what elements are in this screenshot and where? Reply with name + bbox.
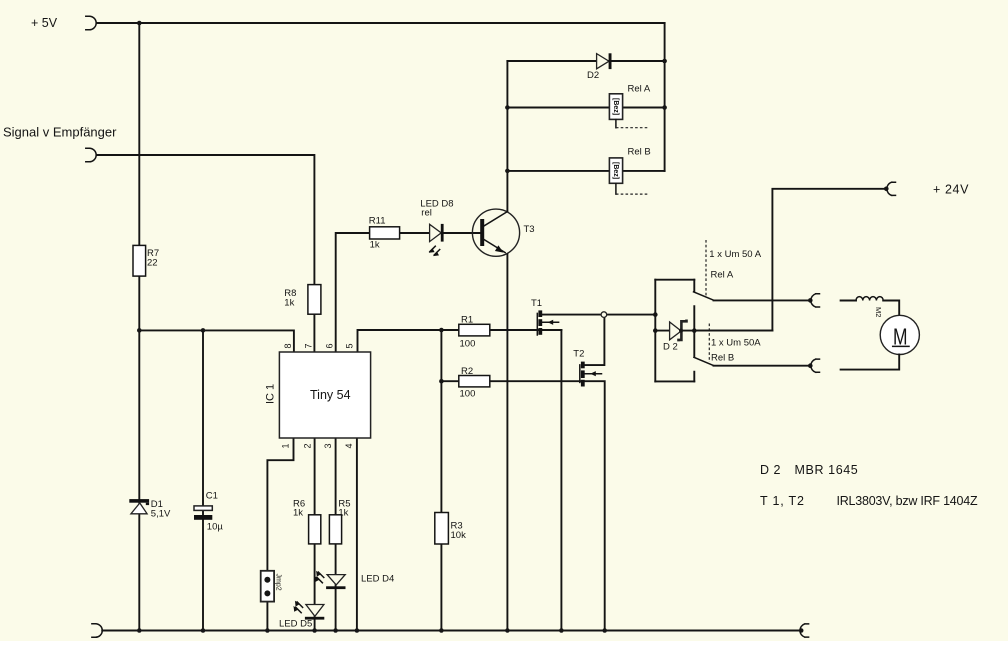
- wire IC pin 4 down to rail: [356, 438, 358, 631]
- svg-text:T 1, T2: T 1, T2: [760, 494, 805, 508]
- svg-text:D2: D2: [587, 70, 599, 81]
- svg-text:1 x Um 50A: 1 x Um 50A: [711, 338, 761, 349]
- svg-text:C1: C1: [206, 491, 218, 502]
- junction schottky right: [692, 328, 697, 333]
- wire switch B contact to motor connector: [714, 365, 811, 367]
- dashed actuator Rel B coil: [616, 184, 649, 195]
- svg-text:T1: T1: [531, 298, 542, 309]
- svg-text:1k: 1k: [338, 508, 348, 519]
- wire contact block top: [655, 279, 694, 281]
- junction rail T1 source: [559, 628, 564, 633]
- resistor R2: [459, 376, 490, 387]
- svg-text:+ 5V: + 5V: [31, 16, 58, 30]
- wire T2 drain up to node: [585, 317, 605, 365]
- resistor R8: [308, 285, 321, 315]
- svg-text:IC 1: IC 1: [265, 384, 277, 404]
- dashed actuator Rel A switch: [705, 240, 707, 296]
- motor M: [880, 315, 919, 354]
- resistor R1: [459, 324, 490, 336]
- label R11 value: [369, 216, 386, 251]
- svg-text:Rel A: Rel A: [628, 84, 651, 95]
- node motor top connector: [808, 294, 820, 307]
- junction Rel A left: [505, 105, 510, 110]
- IC U1 Tiny 54: [279, 352, 370, 438]
- resistor R7: [133, 245, 146, 276]
- wire contact block bottom: [655, 380, 694, 382]
- junction C1 top: [201, 328, 206, 333]
- svg-text:M2: M2: [874, 307, 883, 317]
- LED D8: [429, 224, 444, 256]
- svg-text:100: 100: [460, 339, 476, 350]
- label R3 value: [451, 521, 467, 542]
- schottky diode D 2: [670, 320, 687, 342]
- svg-text:100: 100: [460, 389, 476, 400]
- wire schottky row to +24V riser: [655, 330, 772, 332]
- switch contact Rel B arm: [694, 357, 714, 365]
- dashed actuator Rel B switch: [708, 324, 710, 363]
- switch contact Rel A arm: [694, 292, 714, 300]
- wire middle throw vertical: [693, 306, 695, 357]
- label R7 value: [147, 248, 159, 269]
- svg-text:R2: R2: [461, 366, 473, 377]
- label D 2 MBR 1645: [760, 463, 858, 477]
- node circle T1/T2 drains: [601, 312, 607, 318]
- svg-text:Rel B: Rel B: [711, 353, 734, 364]
- junction rail LED D4: [333, 628, 338, 633]
- label R6 value: [293, 499, 305, 519]
- junction schottky apex: [679, 329, 683, 333]
- inductor motor choke: [856, 297, 883, 301]
- junction rail pin4: [355, 628, 360, 633]
- wire switch A contact to motor connector: [714, 299, 811, 301]
- node +5V connector: [86, 16, 96, 30]
- junction rail D1: [137, 628, 142, 633]
- svg-text:T3: T3: [524, 224, 535, 235]
- svg-text:10µ: 10µ: [207, 522, 224, 533]
- wire IC pin 6 up then right through R11 LED to T3 base: [336, 233, 481, 352]
- wire junction column R1 R2 R3 to rail: [440, 330, 442, 631]
- label C1 value: [206, 491, 224, 533]
- label D1 value: [151, 499, 171, 520]
- svg-text:Signal v Empfänger: Signal v Empfänger: [3, 125, 117, 140]
- transistor T2: [580, 362, 602, 387]
- svg-text:1k: 1k: [370, 240, 380, 251]
- wire Rel B horizontal: [507, 170, 664, 172]
- wire +5V rail top: [96, 22, 664, 24]
- svg-text:LED D5: LED D5: [279, 619, 312, 630]
- svg-text:R11: R11: [369, 216, 386, 227]
- wire +5V vertical down through R7 D1 to ground rail: [138, 23, 140, 631]
- wire motor top lead with inductor: [841, 300, 856, 302]
- svg-text:1: 1: [281, 443, 291, 448]
- wire T1 drain to contact block: [542, 314, 655, 316]
- wire switch A pole stub: [693, 280, 695, 292]
- svg-text:4: 4: [344, 443, 354, 448]
- label R8 value: [284, 288, 296, 309]
- svg-text:5,1V: 5,1V: [151, 509, 171, 520]
- svg-text:MBR 1645: MBR 1645: [795, 463, 859, 477]
- diode D2: [597, 53, 612, 69]
- junction rail LED D5: [312, 628, 317, 633]
- svg-text:Rel B: Rel B: [628, 147, 651, 158]
- svg-text:LED D4: LED D4: [361, 574, 394, 585]
- transistor T1: [537, 310, 558, 335]
- resistor R11: [370, 227, 400, 239]
- svg-text:22: 22: [147, 258, 158, 269]
- jumper Jmp2: [261, 571, 282, 602]
- svg-text:[Bez]: [Bez]: [612, 98, 619, 115]
- junction R7 bottom: [137, 328, 142, 333]
- relay coil Rel A: [609, 94, 622, 120]
- wire inductor to motor: [883, 301, 899, 316]
- wire ground rail: [102, 630, 801, 632]
- svg-text:M: M: [893, 323, 908, 349]
- svg-text:Tiny 54: Tiny 54: [310, 388, 351, 402]
- svg-text:+ 24V: + 24V: [933, 183, 969, 197]
- LED D5: [294, 601, 325, 620]
- label T1 T2 types: [760, 494, 978, 508]
- wire T1 source down to rail: [560, 330, 562, 631]
- wire IC pin 2 down through R6 LED D5 to rail: [314, 438, 316, 631]
- junction contact block left top: [653, 312, 658, 317]
- svg-text:T2: T2: [573, 349, 584, 360]
- svg-text:1k: 1k: [284, 298, 294, 309]
- junction R1 left: [439, 328, 444, 333]
- wire R2 to T2 gate and T2 source down: [441, 381, 604, 630]
- junction rail R3: [439, 628, 444, 633]
- label R1 value: [460, 315, 476, 350]
- svg-text:1 x Um 50 A: 1 x Um 50 A: [709, 249, 761, 260]
- svg-text:10k: 10k: [451, 530, 467, 541]
- wire +24V riser and feed: [694, 189, 886, 331]
- svg-text:D 2: D 2: [663, 342, 678, 353]
- junction schottky left: [653, 328, 658, 333]
- svg-text:8: 8: [283, 343, 293, 348]
- svg-text:5: 5: [345, 343, 355, 348]
- wire IC pin 3 down through R5 LED D4 to rail: [335, 438, 337, 631]
- node Signal connector: [86, 148, 96, 162]
- svg-text:Jmp2: Jmp2: [275, 574, 282, 591]
- junction R2 left: [439, 379, 444, 384]
- node ground-left connector: [92, 624, 102, 638]
- node +24V connector: [884, 182, 896, 195]
- wire signal horizontal then down to IC pin 7 through R8: [96, 155, 314, 352]
- capacitor C1: [194, 506, 212, 520]
- wire T3 emitter down to rail: [506, 254, 508, 631]
- svg-text:7: 7: [304, 343, 314, 348]
- svg-text:Rel A: Rel A: [711, 270, 734, 281]
- resistor R5: [329, 515, 341, 544]
- svg-text:6: 6: [325, 343, 335, 348]
- label R5 value: [338, 499, 350, 519]
- junction Rel B left: [505, 169, 510, 174]
- svg-text:1k: 1k: [293, 508, 303, 519]
- wire right vertical from top rail down to Rel B: [664, 23, 666, 171]
- wire switch B other throw stub: [693, 372, 695, 382]
- svg-text:[Bez]: [Bez]: [612, 162, 619, 179]
- junction rail C1: [201, 628, 206, 633]
- wire relay-column vertical D2 to T3 collector: [506, 61, 508, 211]
- label R2 value: [460, 366, 476, 400]
- junction rail T3 emitter: [505, 628, 510, 633]
- svg-text:D 2: D 2: [760, 463, 781, 477]
- wire IC pin 1 to jumper to rail: [267, 438, 293, 631]
- resistor R6: [309, 515, 321, 544]
- wire IC pin 8 up and left to R7 junction: [139, 330, 294, 352]
- svg-text:IRL3803V, bzw IRF 1404Z: IRL3803V, bzw IRF 1404Z: [837, 494, 978, 508]
- wire motor bottom lead: [841, 355, 900, 370]
- junction D2 right: [662, 59, 667, 64]
- wire Rel A horizontal: [507, 107, 664, 109]
- svg-text:rel: rel: [421, 208, 432, 219]
- node motor bottom connector: [808, 359, 820, 372]
- dashed actuator Rel A coil: [616, 120, 649, 128]
- svg-text:R1: R1: [461, 315, 473, 326]
- junction rail T2 source: [602, 628, 607, 633]
- wire IC pin 5 up then right through R1 to T1: [358, 330, 562, 352]
- zener D1: [129, 499, 149, 514]
- wire D2 horizontal: [507, 60, 664, 62]
- wire C1 vertical: [202, 330, 204, 630]
- label LED D8 rel: [420, 199, 453, 219]
- junction rail jumper: [265, 628, 270, 633]
- svg-text:3: 3: [323, 443, 333, 448]
- svg-text:2: 2: [302, 443, 312, 448]
- wire contact block left vertical: [654, 280, 656, 382]
- node ground-right connector: [799, 624, 809, 637]
- junction Rel A right: [662, 105, 667, 110]
- LED D4: [315, 571, 346, 589]
- transistor T3: [472, 209, 519, 256]
- relay coil Rel B: [609, 158, 622, 183]
- junction top rail / +5V vertical: [137, 21, 142, 26]
- resistor R3: [435, 513, 449, 545]
